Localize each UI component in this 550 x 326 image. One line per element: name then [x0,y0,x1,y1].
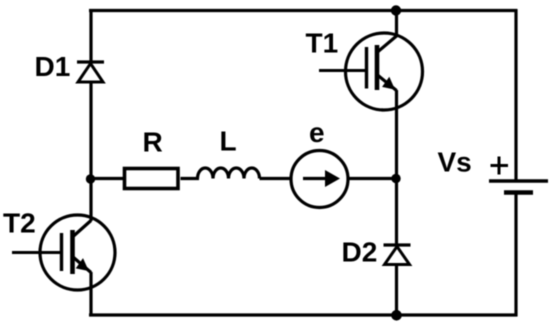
battery plus sign [491,157,509,175]
svg-text:D2: D2 [342,237,378,268]
wire T1 collector from top rail [395,11,398,38]
diode D1 [77,62,104,82]
wire T2 emitter to bottom rail [89,272,92,317]
node C junction dot (top rail / T1 collector) [391,5,401,15]
wire middle branch left (node A to R) [89,177,123,180]
wire left rail lower (node A to T2 collector) [89,179,92,222]
wire R to L [181,177,200,180]
wire source e to node B [349,177,397,180]
wire right rail lower (battery - to bottom corner) [514,193,517,317]
svg-text:Vs: Vs [438,147,472,178]
wire L to source e [260,177,292,180]
svg-text:D1: D1 [35,51,71,82]
node B junction dot (right of source e) [391,174,400,183]
source e (circle with arrow) [291,151,348,208]
wire D2 anode to node D [395,265,398,316]
wire bottom rail [89,313,517,316]
wire right rail upper (top corner to battery +) [514,9,517,181]
svg-text:T2: T2 [3,208,36,239]
transistor T1 (IGBT) [319,33,423,110]
battery Vs [489,181,548,193]
svg-text:e: e [309,117,325,148]
transistor T2 (IGBT) [12,215,115,290]
node A junction dot (left rail, middle branch) [86,174,95,183]
inductor L [198,168,260,179]
svg-text:L: L [220,126,237,157]
svg-text:T1: T1 [306,28,339,59]
wire left rail middle (D1 anode to node A) [89,82,92,179]
resistor R [125,169,179,189]
wire node B to D2 cathode [395,179,398,246]
wire T1 emitter to node B [395,90,398,179]
wire left rail upper (top corner to D1 cathode) [89,9,92,62]
diode D2 [384,245,411,265]
node D junction dot (bottom rail) [391,310,402,321]
svg-text:R: R [143,127,163,158]
wire top rail [89,9,517,12]
